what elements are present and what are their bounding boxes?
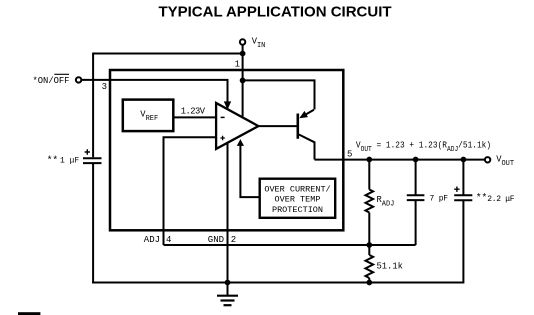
arrow enable into op-amp <box>224 101 231 109</box>
op-amp U2 <box>216 103 258 149</box>
svg-text:OVER CURRENT/: OVER CURRENT/ <box>264 184 330 194</box>
svg-text:*ON/OFF: *ON/OFF <box>33 76 70 86</box>
node junction ground <box>225 280 231 286</box>
node junction VIN top <box>240 51 246 57</box>
IC U1 outline <box>110 70 343 230</box>
terminal VIN <box>240 39 245 44</box>
protection box <box>260 179 336 218</box>
polarity plus C3 <box>454 187 459 192</box>
svg-text:2: 2 <box>231 235 236 245</box>
wire emitter feed <box>243 80 315 109</box>
resistor R2 51.1k <box>368 245 370 255</box>
wire ADJ horizontal <box>164 244 416 246</box>
svg-text:3: 3 <box>102 82 107 92</box>
transistor Q1 base bar <box>296 114 299 139</box>
svg-text:5: 5 <box>347 149 352 159</box>
svg-text:1: 1 <box>235 60 240 70</box>
wire VOUT rail <box>315 159 485 161</box>
wire ON/OFF to enable <box>82 80 228 103</box>
capacitor C2 7pF <box>415 160 417 196</box>
svg-text:OVER TEMP: OVER TEMP <box>275 195 321 205</box>
terminal VOUT <box>485 157 490 162</box>
svg-text:**: ** <box>47 155 58 167</box>
wire outer left upper <box>92 53 94 158</box>
svg-text:GND: GND <box>208 235 224 245</box>
wire outer bottom ground rail <box>92 282 463 284</box>
node junction ADJ <box>366 242 372 248</box>
svg-text:2.2 μF: 2.2 μF <box>487 195 515 204</box>
svg-text:1 μF: 1 μF <box>60 156 79 165</box>
node junction 7pF top <box>413 157 419 163</box>
wire op-amp plus input <box>164 137 217 245</box>
node junction VIN to emitter <box>240 78 246 84</box>
svg-text:ADJ: ADJ <box>144 235 160 245</box>
overline OFF <box>54 73 69 75</box>
capacitor C1 1uF plates <box>83 157 102 159</box>
terminal ON/OFF <box>76 77 81 82</box>
node junction RADJ top <box>366 157 372 163</box>
transistor Q1 collector <box>299 135 315 160</box>
wire op-amp ground <box>227 143 229 283</box>
arrow protection into op-amp <box>237 139 244 146</box>
node junction 51.1k bottom <box>366 280 372 286</box>
regulator box VREF <box>123 100 174 132</box>
wire VREF to op-amp minus <box>173 116 216 118</box>
minus input mark <box>221 116 225 118</box>
plus input mark <box>220 136 224 140</box>
ground <box>227 283 229 296</box>
svg-text:4: 4 <box>166 235 171 245</box>
wire outer top <box>93 53 243 55</box>
polarity plus C1 <box>85 149 90 154</box>
capacitor C3 2.2uF <box>462 160 464 196</box>
svg-text:TYPICAL APPLICATION CIRCUIT: TYPICAL APPLICATION CIRCUIT <box>158 4 391 21</box>
svg-text:**: ** <box>476 192 487 204</box>
svg-text:51.1k: 51.1k <box>377 262 403 272</box>
footnote overline mark <box>18 312 40 315</box>
wire VIN vertical <box>242 45 244 117</box>
resistor RADJ <box>368 160 370 190</box>
label VOUT equation <box>356 140 491 153</box>
wire outer left lower <box>92 163 94 283</box>
svg-text:1.23V: 1.23V <box>181 106 206 116</box>
transistor Q1 emitter with arrow <box>301 110 314 118</box>
svg-text:7 pF: 7 pF <box>430 195 449 204</box>
svg-text:PROTECTION: PROTECTION <box>272 205 323 215</box>
wire op-amp output to base <box>258 125 296 127</box>
node junction 2.2uF top <box>461 157 467 163</box>
wire protection to op-amp <box>240 145 259 197</box>
